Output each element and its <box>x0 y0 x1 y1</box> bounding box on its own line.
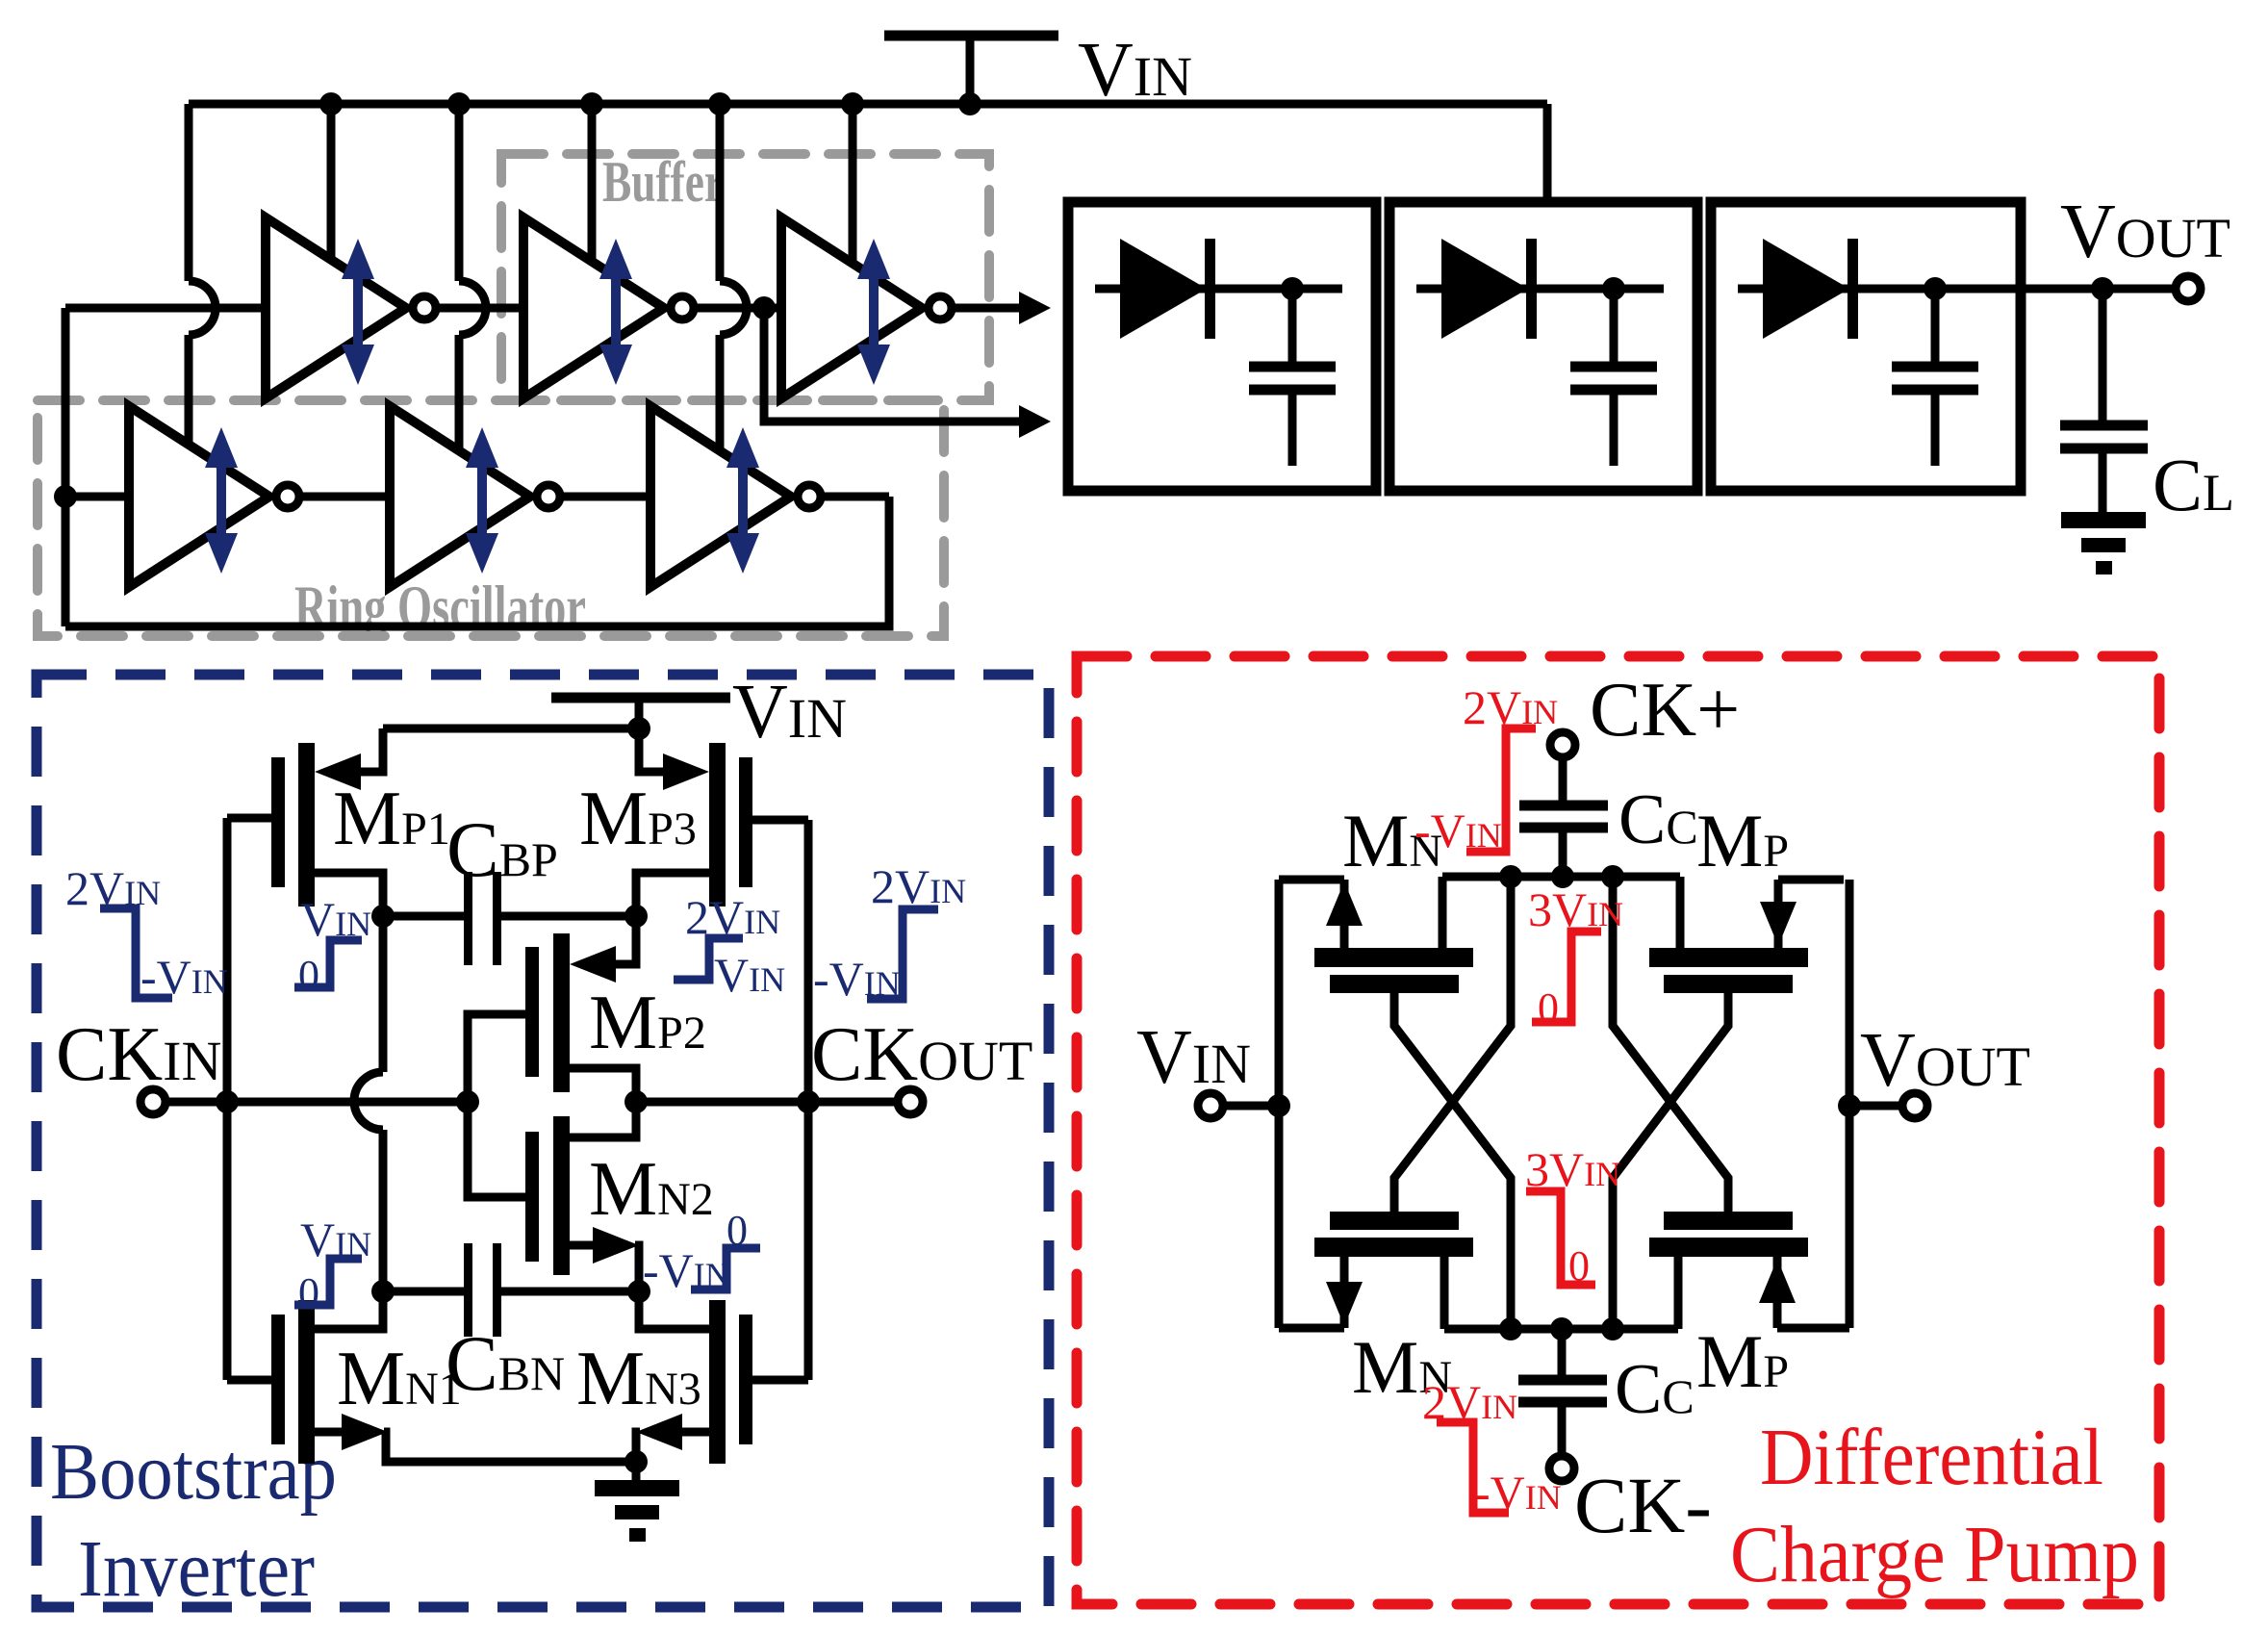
node rail junctions <box>319 92 981 115</box>
VIN supply symbol (bootstrap) <box>551 698 730 728</box>
wire ring feedback bottom <box>65 497 889 626</box>
svg-text:Buffer: Buffer <box>602 150 724 214</box>
node VIN rail <box>1267 1094 1290 1117</box>
ground (CL) <box>2061 512 2146 574</box>
waveform CK+ 2VIN/-VIN <box>1414 680 1558 857</box>
gray dashed box Buffer <box>501 154 989 400</box>
wire VDD drop to ring inverter R1 (hop over buffer input) <box>189 104 216 446</box>
wire VDD drop to ring inverter R2 (hop over B1 output) <box>459 104 486 451</box>
wire buffer input line <box>65 304 266 313</box>
node VOUT rail <box>1838 1094 1861 1117</box>
transistor MN bottom <box>1279 1212 1473 1329</box>
terminal CKOUT <box>898 1089 923 1114</box>
node CBN right <box>627 1280 650 1303</box>
svg-text:CK-: CK- <box>1574 1461 1712 1549</box>
svg-text:0: 0 <box>298 952 319 999</box>
capacitor stage 1 <box>1249 289 1336 466</box>
wire VDD drop to ring inverter R3 (hop over B2 output) <box>720 104 747 451</box>
bulk arrow R2 <box>466 427 498 574</box>
terminal CK+ <box>1550 732 1575 757</box>
node source/ground junction <box>624 1450 648 1473</box>
waveform CKIN 2VIN/-VIN <box>65 861 228 1004</box>
bulk arrow R1 <box>205 427 238 574</box>
wire cross-coupling left <box>1394 877 1511 1329</box>
pump stage 3 box <box>1711 202 2021 491</box>
wire VDD drop to inverter B1 <box>327 104 336 262</box>
svg-text:0: 0 <box>298 1269 319 1316</box>
transistor MN3 <box>636 1291 808 1464</box>
diode stage 2 <box>1416 239 1664 339</box>
capacitor stage 3 <box>1892 289 1978 466</box>
terminal CKIN <box>140 1089 166 1114</box>
node MP3/MN3 gate bus <box>797 1090 820 1113</box>
wire VDD drop to inverter B2 <box>588 104 597 264</box>
node CBP right <box>624 905 648 928</box>
terminal CK- <box>1549 1456 1574 1481</box>
transistor MN2 <box>468 1102 639 1291</box>
wire ring input to R1 <box>65 493 129 501</box>
wire VOUT <box>2021 285 2176 294</box>
node CK+ junctions <box>1499 865 1624 888</box>
capacitor CC top <box>1519 757 1608 877</box>
node CBN left <box>371 1280 395 1303</box>
node CBP left <box>371 905 395 928</box>
node CKIN gate bus <box>216 1090 239 1113</box>
node MP2/MN2 gates <box>456 1090 479 1113</box>
wire CKIN <box>166 1098 468 1107</box>
capacitor CL <box>2060 289 2148 514</box>
svg-text:0: 0 <box>1568 1242 1590 1289</box>
node stage 2 <box>1602 277 1625 300</box>
wire VDD bus (bootstrap) <box>383 725 639 733</box>
wire CBP-CBN link with hop over CKIN <box>354 916 383 1291</box>
bulk arrow B3 <box>857 239 890 385</box>
inverter R3 <box>650 406 821 587</box>
bulk arrow B1 <box>342 239 374 385</box>
transistor MP2 <box>468 916 636 1102</box>
wire CK- arrow to stage1 <box>764 308 1051 438</box>
wire VDD drop to inverter B3 <box>849 104 857 265</box>
inverter B3 <box>781 217 952 398</box>
wire B2 out <box>694 304 781 313</box>
svg-text:CK+: CK+ <box>1590 668 1740 753</box>
wire gate bus MP1/MN1 <box>223 818 232 1380</box>
transistor MN top <box>1279 877 1473 993</box>
capacitor CC bottom <box>1518 1329 1607 1456</box>
node inverter output <box>624 1090 648 1113</box>
waveform bottom node 3VIN/0 <box>1525 1142 1620 1289</box>
node VDD stem <box>627 717 650 740</box>
node ring input <box>54 485 77 508</box>
terminal VOUT <box>2176 276 2201 301</box>
navy dashed box Bootstrap Inverter <box>37 675 1049 1607</box>
gray dashed box Ring Oscillator <box>38 400 944 636</box>
transistor MP1 <box>227 728 383 916</box>
svg-text:Charge Pump: Charge Pump <box>1730 1510 2139 1599</box>
diode stage 1 <box>1095 239 1342 339</box>
capacitor CBN <box>383 1243 639 1337</box>
capacitor stage 2 <box>1570 289 1657 466</box>
waveform node Q 2VIN/VIN <box>674 890 785 1002</box>
capacitor CBP <box>383 872 636 965</box>
waveform node S -VIN/0 <box>643 1207 760 1297</box>
node stage 1 <box>1281 277 1304 300</box>
transistor MP3 <box>636 728 808 916</box>
VIN supply symbol (top) <box>884 36 1058 104</box>
svg-text:Differential: Differential <box>1760 1413 2103 1502</box>
svg-text:Bootstrap: Bootstrap <box>50 1427 337 1517</box>
red dashed box Differential Charge Pump <box>1077 656 2159 1604</box>
wire CK+ arrow to stage1 <box>952 292 1051 324</box>
waveform node R VIN/0 <box>294 1213 371 1316</box>
wire VOUT rail (pump) <box>1849 880 1902 1328</box>
transistor MN1 <box>227 1291 636 1464</box>
inverter B1 <box>266 217 436 398</box>
waveform node P VIN/0 <box>294 892 371 999</box>
pump stage 2 box <box>1389 202 1697 491</box>
svg-text:0: 0 <box>1538 984 1559 1032</box>
transistor MP top <box>1649 877 1844 993</box>
wire R2 out <box>560 493 650 501</box>
inverter R1 <box>129 406 299 587</box>
node stage 3 <box>1924 277 1947 300</box>
terminal VOUT (pump) <box>1902 1093 1927 1118</box>
node CK- junctions <box>1499 1317 1624 1340</box>
ground (bootstrap) <box>595 1462 679 1542</box>
diode stage 3 <box>1738 239 2021 339</box>
inverter R2 <box>390 406 560 587</box>
transistor MP bottom <box>1649 1212 1849 1329</box>
wire ring node vertical <box>62 308 70 626</box>
wire rail drop to stage2 <box>1543 104 1552 204</box>
wire node CK+ <box>1442 873 1680 881</box>
wire R1 out <box>299 493 390 501</box>
node B3 input junction <box>752 296 776 319</box>
wire cross-coupling right <box>1613 877 1728 1329</box>
bulk arrow R3 <box>726 427 759 574</box>
waveform CKOUT 2VIN/-VIN <box>813 859 966 1006</box>
wire B1 out <box>436 304 523 313</box>
waveform top node 3VIN/0 <box>1528 882 1623 1032</box>
pump stage 1 box <box>1068 202 1376 491</box>
svg-text:Inverter: Inverter <box>78 1524 315 1614</box>
waveform CK- 2VIN/-VIN <box>1422 1375 1562 1519</box>
wire VIN rail <box>189 100 1547 109</box>
wire VIN rail (pump) <box>1223 880 1279 1328</box>
node VOUT <box>2091 277 2114 300</box>
bulk arrow B2 <box>599 239 632 385</box>
inverter B2 <box>523 217 694 398</box>
wire CKOUT <box>636 1098 898 1107</box>
wire R3 out <box>821 493 889 501</box>
wire gate bus MP3/MN3 <box>804 820 813 1380</box>
wire node CK- <box>1444 1325 1678 1334</box>
terminal VIN (pump) <box>1198 1093 1223 1118</box>
